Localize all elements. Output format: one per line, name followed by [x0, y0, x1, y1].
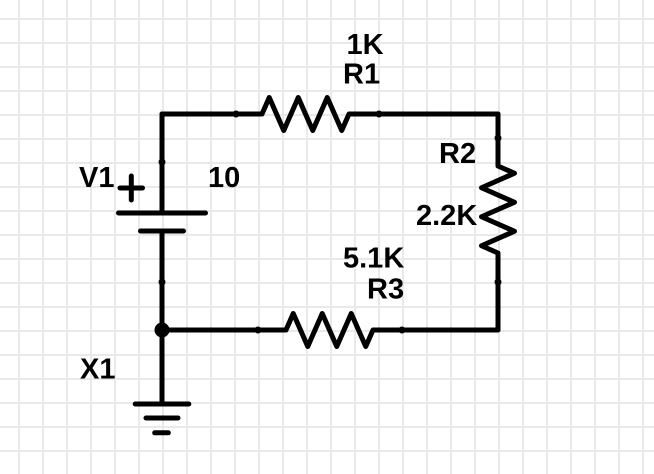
svg-text:2.2K: 2.2K [416, 200, 477, 232]
svg-text:5.1K: 5.1K [343, 243, 404, 275]
svg-text:R2: R2 [439, 138, 476, 170]
svg-text:R1: R1 [343, 59, 380, 91]
svg-text:V1: V1 [79, 162, 114, 194]
svg-text:1K: 1K [347, 29, 384, 61]
svg-text:R3: R3 [367, 274, 404, 306]
svg-text:10: 10 [208, 162, 240, 194]
svg-text:X1: X1 [80, 354, 115, 386]
